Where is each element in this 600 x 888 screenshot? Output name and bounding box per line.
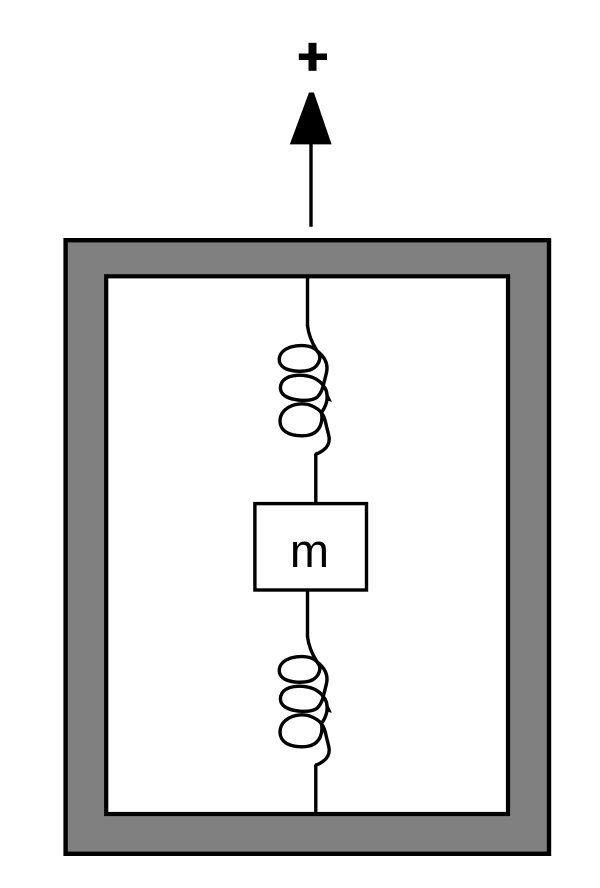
- svg-text:m: m: [290, 524, 329, 577]
